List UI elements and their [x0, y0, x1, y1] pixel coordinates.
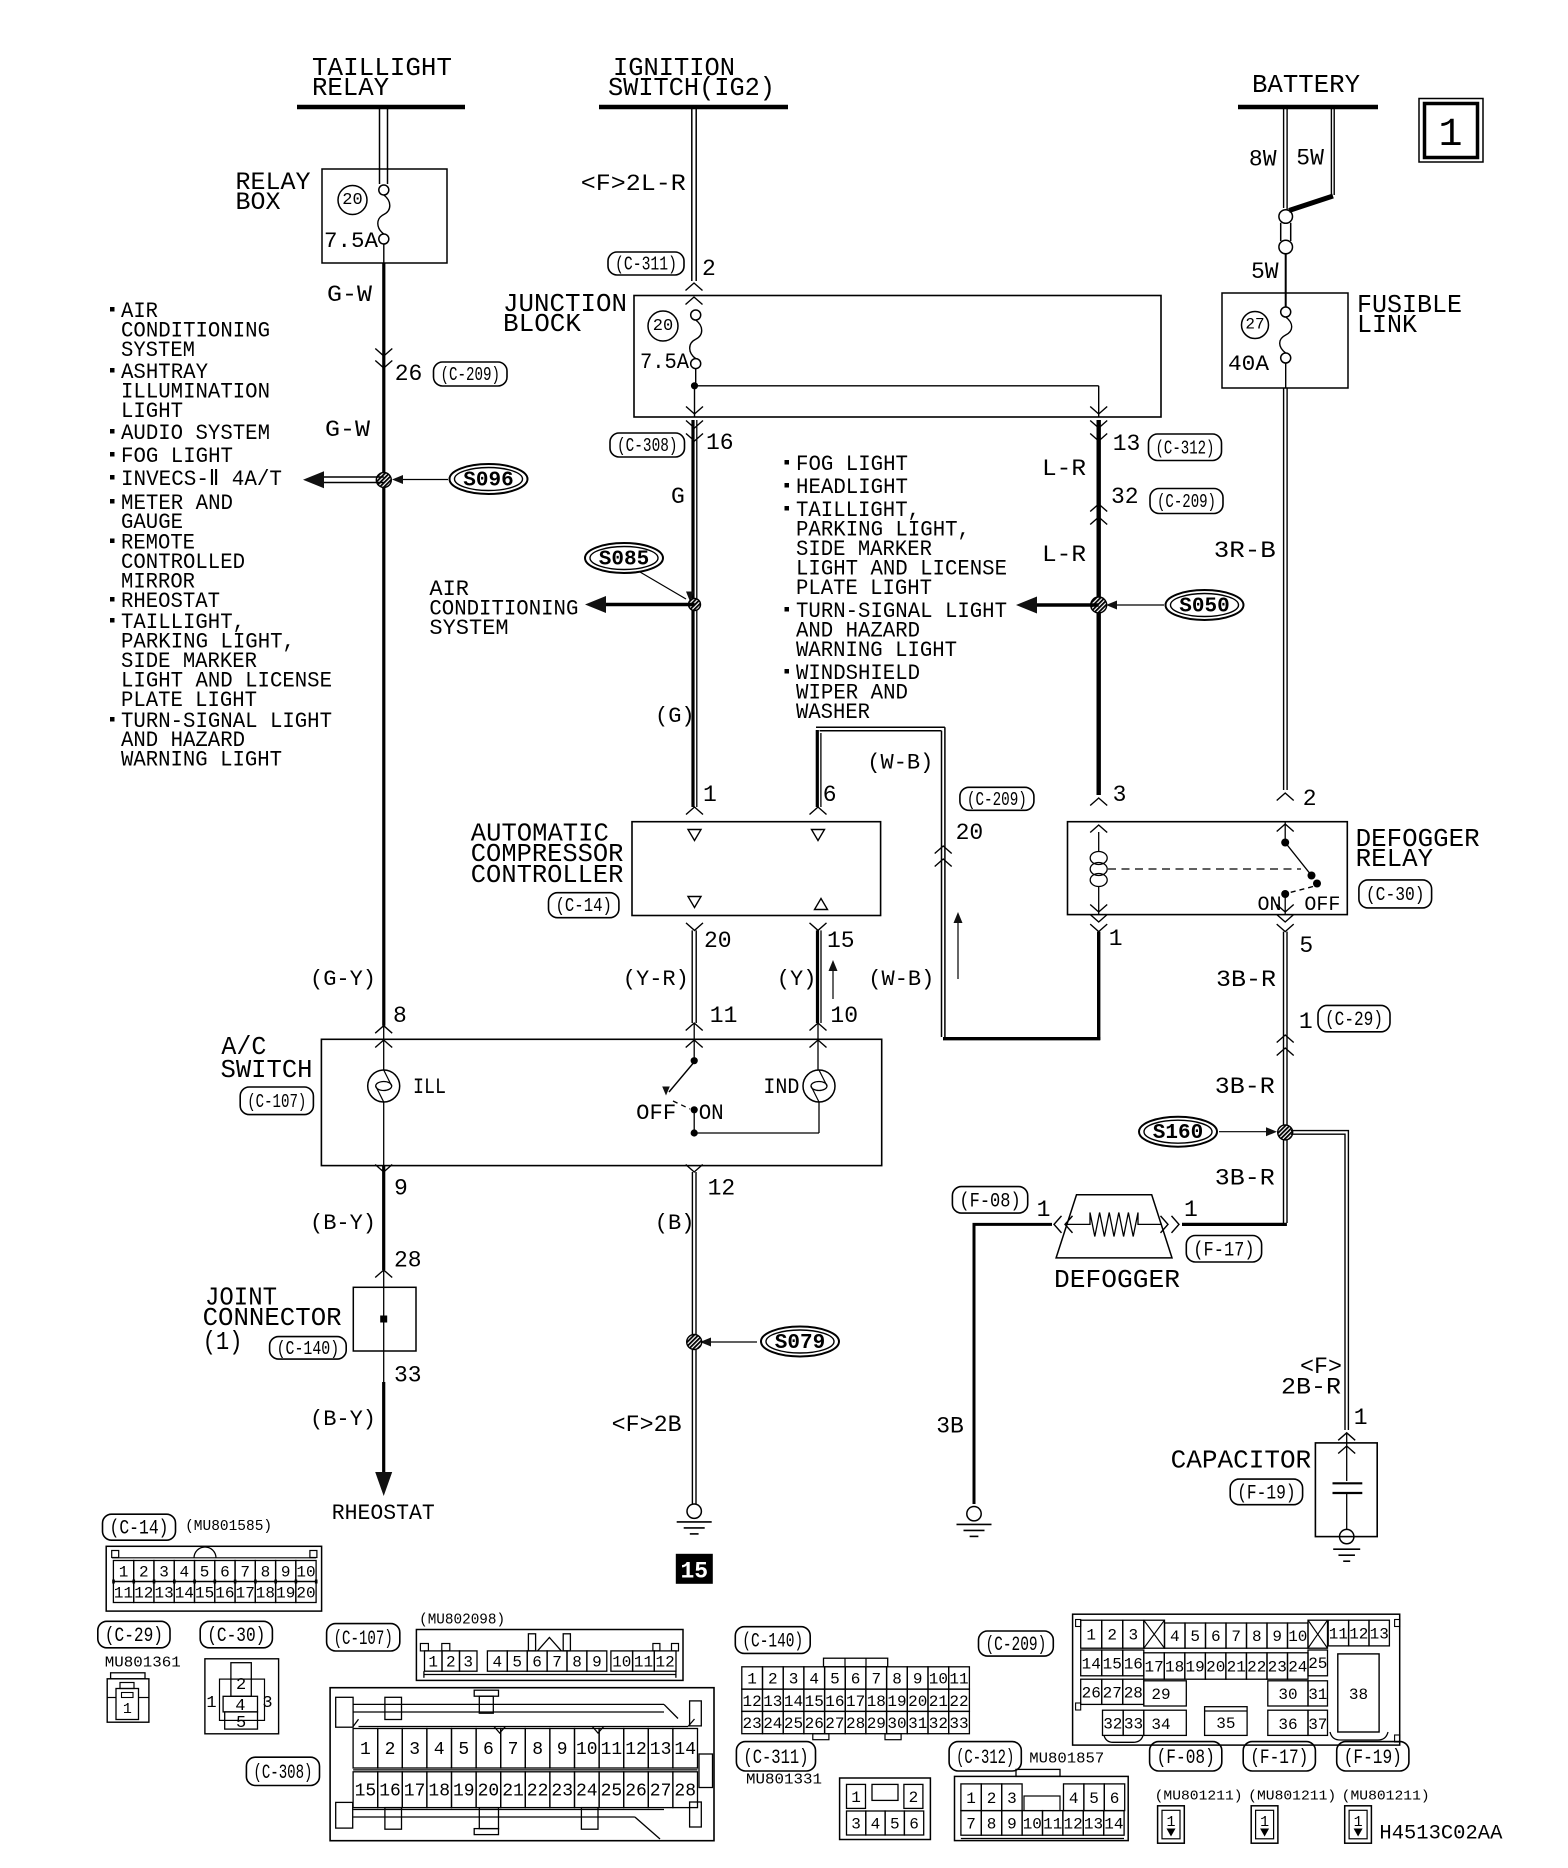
label <F>2B — [612, 1412, 682, 1438]
wire defogger left to ground 3B (thick) — [936, 1224, 1052, 1504]
label AIR CONDITIONING SYSTEM — [429, 577, 578, 641]
svg-text:14: 14 — [674, 1740, 696, 1760]
svg-text:2B-R: 2B-R — [1281, 1375, 1341, 1401]
svg-text:3: 3 — [159, 1564, 169, 1582]
svg-text:3: 3 — [1113, 782, 1127, 808]
svg-text:(B): (B) — [655, 1211, 695, 1236]
fuse 20 7.5A in relay box — [324, 185, 390, 254]
relay switch contacts — [1258, 822, 1341, 917]
svg-text:3R-B: 3R-B — [1214, 538, 1276, 564]
svg-text:9: 9 — [592, 1654, 602, 1672]
svg-text:2: 2 — [236, 1676, 246, 1695]
svg-text:15: 15 — [680, 1559, 708, 1585]
svg-text:22: 22 — [949, 1693, 968, 1711]
wire: taillight relay feed (double) — [380, 109, 388, 184]
svg-text:26: 26 — [625, 1782, 647, 1802]
svg-text:3: 3 — [1128, 1627, 1138, 1645]
svg-text:(F-19): (F-19) — [1344, 1747, 1402, 1770]
svg-text:1: 1 — [1438, 113, 1462, 158]
junction node in block — [691, 369, 698, 390]
wire to air conditioning system (thick arrow) — [585, 596, 695, 613]
svg-text:(C-209): (C-209) — [441, 364, 501, 386]
svg-text:(C-308): (C-308) — [617, 435, 678, 457]
junction node at S085 — [689, 599, 701, 611]
svg-text:(F-08): (F-08) — [1157, 1747, 1215, 1770]
svg-text:1: 1 — [703, 782, 717, 808]
svg-text:33: 33 — [1124, 1715, 1143, 1733]
svg-text:OFF: OFF — [1304, 894, 1340, 917]
svg-text:3: 3 — [789, 1671, 799, 1689]
svg-text:3: 3 — [262, 1694, 272, 1713]
svg-text:6: 6 — [823, 782, 837, 808]
junction node at S096 — [376, 473, 391, 488]
svg-text:17: 17 — [846, 1693, 865, 1711]
relay dashed link — [1108, 868, 1301, 870]
splice S160 — [1139, 1117, 1277, 1147]
svg-text:<F>2B: <F>2B — [612, 1412, 682, 1438]
svg-text:S085: S085 — [599, 549, 649, 572]
load list (ignition circuits) — [785, 452, 1008, 725]
svg-text:(C-209): (C-209) — [986, 1634, 1047, 1657]
svg-text:3: 3 — [463, 1654, 473, 1672]
flow arrow up (Y) — [829, 960, 838, 999]
svg-text:4: 4 — [492, 1654, 502, 1672]
svg-text:WASHER: WASHER — [796, 700, 870, 725]
svg-text:4: 4 — [1069, 1790, 1079, 1808]
svg-text:9: 9 — [557, 1740, 568, 1760]
svg-text:5W: 5W — [1251, 259, 1279, 285]
svg-text:1: 1 — [119, 1564, 129, 1582]
svg-text:(C-30): (C-30) — [207, 1625, 265, 1648]
svg-text:LINK: LINK — [1357, 310, 1417, 340]
pin 3 defogger relay — [1090, 782, 1126, 833]
svg-text:L-R: L-R — [1042, 542, 1086, 568]
svg-text:30: 30 — [887, 1715, 906, 1733]
svg-text:12: 12 — [742, 1693, 761, 1711]
wire W-B down run (double) — [942, 727, 945, 1038]
label (Y) — [777, 967, 817, 992]
svg-text:13: 13 — [650, 1740, 672, 1760]
svg-text:1: 1 — [1037, 1197, 1051, 1223]
wire W-B top run (double) — [816, 727, 945, 730]
svg-text:8: 8 — [892, 1671, 902, 1689]
pin 9 A/C switch — [375, 1165, 408, 1202]
connector crossing 1 C-29 — [1277, 1005, 1390, 1055]
svg-text:1: 1 — [747, 1671, 757, 1689]
svg-text:AUDIO SYSTEM: AUDIO SYSTEM — [121, 421, 270, 446]
svg-text:(Y): (Y) — [777, 967, 817, 992]
connector pinout C-312 — [949, 1742, 1128, 1841]
svg-text:(MU802098): (MU802098) — [419, 1612, 505, 1629]
wire to INVECS (double with arrow) — [303, 471, 384, 488]
svg-text:2: 2 — [987, 1790, 997, 1808]
svg-text:(F-08): (F-08) — [959, 1190, 1020, 1213]
ground (ignition branch) — [677, 1504, 712, 1534]
svg-text:5: 5 — [200, 1564, 210, 1582]
svg-text:21: 21 — [929, 1693, 948, 1711]
svg-text:S079: S079 — [775, 1332, 825, 1355]
wire defogger to relay (thick) — [1182, 1223, 1287, 1226]
svg-text:5: 5 — [1190, 1628, 1200, 1646]
relay coil — [1090, 832, 1107, 915]
pin 1 defogger relay — [1090, 905, 1122, 953]
svg-text:20: 20 — [1206, 1659, 1225, 1677]
svg-text:(C-209): (C-209) — [1157, 491, 1216, 513]
wire to rheostat with arrow — [375, 1351, 392, 1496]
svg-text:(C-311): (C-311) — [743, 1747, 808, 1770]
svg-text:HEADLIGHT: HEADLIGHT — [796, 475, 908, 500]
svg-text:1: 1 — [1086, 1627, 1096, 1645]
svg-text:4: 4 — [871, 1816, 881, 1834]
svg-text:ILL: ILL — [413, 1075, 446, 1100]
svg-text:FOG LIGHT: FOG LIGHT — [796, 452, 908, 477]
svg-text:(1): (1) — [203, 1327, 243, 1357]
svg-text:19: 19 — [276, 1585, 295, 1603]
svg-text:31: 31 — [908, 1715, 927, 1733]
svg-text:OFF: OFF — [636, 1101, 676, 1126]
svg-text:15: 15 — [805, 1693, 824, 1711]
svg-text:(MU801585): (MU801585) — [185, 1518, 272, 1535]
svg-text:32: 32 — [929, 1715, 948, 1733]
svg-text:14: 14 — [784, 1693, 803, 1711]
connector crossing 26 C-209 — [375, 349, 507, 388]
wire G (thick with companion) — [671, 420, 697, 807]
pin 20 compressor controller — [686, 897, 732, 955]
svg-text:(C-308): (C-308) — [253, 1762, 312, 1785]
label G-W (2) — [325, 417, 370, 443]
svg-text:38: 38 — [1349, 1686, 1368, 1704]
svg-text:10: 10 — [1023, 1815, 1042, 1833]
svg-text:MU801857: MU801857 — [1029, 1750, 1104, 1767]
svg-text:9: 9 — [394, 1176, 408, 1202]
svg-text:17: 17 — [1144, 1659, 1163, 1677]
svg-text:6: 6 — [1211, 1628, 1221, 1646]
svg-text:27: 27 — [650, 1782, 672, 1802]
svg-text:10: 10 — [612, 1654, 631, 1672]
op: automatic compressor controller C-14 — [471, 819, 881, 918]
svg-text:1: 1 — [966, 1790, 976, 1808]
svg-text:5: 5 — [236, 1714, 246, 1733]
connector pinout C-209 — [979, 1614, 1400, 1745]
capacitor F-19 — [1171, 1405, 1378, 1544]
svg-text:3B-R: 3B-R — [1216, 967, 1276, 993]
svg-text:6: 6 — [532, 1654, 542, 1672]
svg-text:1: 1 — [206, 1694, 216, 1713]
svg-text:20: 20 — [704, 928, 732, 954]
svg-text:10: 10 — [1288, 1628, 1307, 1646]
svg-text:(MU801211): (MU801211) — [1155, 1789, 1243, 1805]
svg-text:RELAY: RELAY — [312, 73, 389, 103]
svg-text:5: 5 — [458, 1740, 469, 1760]
svg-text:ON: ON — [699, 1101, 724, 1126]
svg-text:32: 32 — [1103, 1715, 1122, 1733]
svg-text:11: 11 — [1329, 1626, 1348, 1644]
label <F> 2B-R — [1281, 1354, 1342, 1401]
wire 5W from battery (double) — [1296, 109, 1334, 197]
fuse 20 7.5A in junction block — [640, 310, 702, 375]
svg-text:DEFOGGER: DEFOGGER — [1054, 1265, 1180, 1295]
svg-text:25: 25 — [784, 1715, 803, 1733]
svg-text:27: 27 — [825, 1715, 844, 1733]
svg-text:3: 3 — [1007, 1790, 1017, 1808]
svg-text:7: 7 — [508, 1740, 519, 1760]
label (W-B) bottom — [868, 967, 934, 992]
svg-text:H4513C02AA: H4513C02AA — [1379, 1823, 1502, 1846]
svg-text:(C-312): (C-312) — [1156, 437, 1215, 459]
connector crossing 16 C-308 — [610, 421, 734, 458]
connector pinout C-107 — [327, 1612, 683, 1681]
svg-text:22: 22 — [1247, 1659, 1266, 1677]
svg-text:23: 23 — [1268, 1659, 1287, 1677]
connector crossing 20 C-209 on W-B — [935, 787, 1034, 866]
defogger relay box C-30 — [1068, 822, 1480, 915]
svg-text:20: 20 — [342, 191, 362, 210]
svg-text:9: 9 — [1007, 1815, 1017, 1833]
svg-text:7: 7 — [1231, 1628, 1241, 1646]
wire pin20 to pin11 (double) — [692, 930, 696, 1023]
connector pinout C-29 — [98, 1621, 181, 1722]
svg-text:G: G — [671, 484, 685, 510]
svg-text:29: 29 — [867, 1715, 886, 1733]
wire <F>2L-R ignition feed (double) — [581, 109, 696, 281]
svg-text:28: 28 — [1124, 1684, 1143, 1702]
svg-text:4: 4 — [1170, 1628, 1180, 1646]
svg-text:MU801361: MU801361 — [105, 1655, 181, 1672]
svg-text:7.5A: 7.5A — [324, 229, 379, 254]
flow arrow up (W-B) — [954, 912, 963, 979]
label (B) — [655, 1211, 695, 1236]
A/C switch box C-107 — [221, 1032, 882, 1166]
svg-text:1: 1 — [1109, 926, 1123, 952]
svg-text:13: 13 — [1370, 1626, 1389, 1644]
defogger heater element — [1056, 1195, 1172, 1258]
svg-text:23: 23 — [551, 1782, 573, 1802]
joint connector node — [380, 1287, 387, 1351]
splice S096 — [392, 464, 528, 494]
ground (capacitor) — [1333, 1549, 1360, 1561]
svg-text:(G): (G) — [655, 704, 695, 729]
svg-text:7: 7 — [240, 1564, 250, 1582]
svg-text:20: 20 — [653, 317, 673, 336]
wire L-R (thick) — [1042, 420, 1099, 795]
svg-text:7: 7 — [871, 1671, 881, 1689]
node BATTERY (source bus) — [1238, 70, 1378, 107]
svg-text:3: 3 — [851, 1816, 861, 1834]
svg-text:11: 11 — [634, 1654, 653, 1672]
svg-text:1: 1 — [428, 1654, 438, 1672]
svg-text:(W-B): (W-B) — [867, 751, 933, 776]
splice S050 — [1106, 590, 1244, 620]
svg-text:10: 10 — [830, 1003, 858, 1029]
svg-text:5: 5 — [890, 1816, 900, 1834]
svg-text:INVECS-Ⅱ 4A/T: INVECS-Ⅱ 4A/T — [121, 467, 282, 492]
svg-text:RELAY: RELAY — [1356, 844, 1434, 874]
node IGNITION SWITCH(IG2) (source bus) — [599, 53, 788, 107]
label (Y-R) — [623, 967, 689, 992]
svg-text:5: 5 — [1299, 933, 1313, 959]
pin 33 label — [394, 1362, 422, 1388]
pin 10 A/C switch — [810, 1003, 859, 1070]
svg-text:30: 30 — [1278, 1686, 1297, 1704]
svg-text:9: 9 — [913, 1671, 923, 1689]
svg-text:(F-19): (F-19) — [1237, 1482, 1295, 1505]
svg-text:(F-17): (F-17) — [1193, 1239, 1254, 1262]
label 3B-R (3) — [1215, 1165, 1275, 1191]
svg-text:<F>2L-R: <F>2L-R — [581, 171, 686, 197]
svg-text:13: 13 — [154, 1585, 173, 1603]
svg-text:25: 25 — [1308, 1655, 1327, 1673]
svg-text:11: 11 — [114, 1585, 133, 1603]
svg-text:11: 11 — [949, 1671, 968, 1689]
svg-text:12: 12 — [1349, 1626, 1368, 1644]
wire G-W taillight main (thick) — [383, 244, 385, 1026]
svg-text:SWITCH(IG2): SWITCH(IG2) — [608, 73, 775, 103]
svg-text:CONTROLLER: CONTROLLER — [471, 860, 624, 890]
svg-text:24: 24 — [576, 1782, 598, 1802]
svg-text:26: 26 — [395, 361, 423, 387]
svg-text:1: 1 — [1260, 1814, 1269, 1831]
svg-text:2: 2 — [909, 1789, 919, 1807]
connector crossing 32 C-209 — [1090, 484, 1223, 525]
svg-text:WARNING LIGHT: WARNING LIGHT — [121, 748, 282, 773]
pin 1 compressor controller — [686, 782, 717, 841]
svg-text:6: 6 — [483, 1740, 494, 1760]
svg-text:1: 1 — [851, 1789, 861, 1807]
svg-text:7.5A: 7.5A — [640, 350, 690, 375]
svg-text:8: 8 — [261, 1564, 271, 1582]
connector pinout C-308 — [246, 1688, 714, 1841]
svg-text:PLATE LIGHT: PLATE LIGHT — [796, 576, 932, 601]
wire 8W from battery (double) — [1249, 109, 1287, 210]
svg-text:8: 8 — [572, 1654, 582, 1672]
svg-text:(C-209): (C-209) — [967, 789, 1027, 811]
wire pin15 to pin10 (thick) — [818, 930, 822, 1023]
wire B to ground (double) — [692, 1172, 696, 1504]
svg-text:29: 29 — [1151, 1686, 1170, 1704]
connector F-17 — [1161, 1197, 1262, 1262]
svg-text:(C-140): (C-140) — [277, 1338, 340, 1360]
pin 11 A/C switch — [686, 1003, 738, 1061]
wire pin6 riser (thick) — [817, 730, 821, 807]
svg-text:2: 2 — [768, 1671, 778, 1689]
svg-text:24: 24 — [1288, 1659, 1307, 1677]
svg-text:21: 21 — [1227, 1659, 1246, 1677]
svg-text:16: 16 — [215, 1585, 234, 1603]
wire block exit left — [686, 386, 703, 417]
svg-text:G-W: G-W — [327, 282, 372, 308]
svg-text:S160: S160 — [1153, 1122, 1203, 1145]
svg-text:34: 34 — [1151, 1716, 1170, 1734]
svg-text:17: 17 — [404, 1782, 426, 1802]
svg-text:RHEOSTAT: RHEOSTAT — [332, 1501, 435, 1526]
pin 5 defogger relay — [1277, 905, 1314, 960]
ground (defogger) — [957, 1507, 992, 1537]
junction node at S079 — [687, 1335, 702, 1350]
svg-text:(B-Y): (B-Y) — [310, 1407, 376, 1432]
svg-text:1: 1 — [1184, 1197, 1198, 1223]
connector pinout C-14 — [103, 1514, 322, 1611]
svg-text:3B-R: 3B-R — [1215, 1074, 1275, 1100]
wire 3R-B (double) — [1214, 388, 1287, 790]
connector pinout C-140 — [735, 1627, 969, 1740]
svg-text:3B: 3B — [936, 1413, 964, 1439]
svg-text:(MU801211): (MU801211) — [1342, 1789, 1430, 1805]
svg-text:5: 5 — [512, 1654, 522, 1672]
label RHEOSTAT — [332, 1501, 435, 1526]
label (G) — [655, 704, 695, 729]
splice S085 — [585, 543, 694, 602]
svg-text:MU801331: MU801331 — [746, 1772, 822, 1789]
svg-text:37: 37 — [1308, 1716, 1327, 1734]
svg-text:(G-Y): (G-Y) — [310, 967, 376, 992]
svg-text:5: 5 — [1089, 1790, 1099, 1808]
svg-text:6: 6 — [851, 1671, 861, 1689]
connector pinout C-30 — [200, 1621, 278, 1734]
svg-text:(C-30): (C-30) — [1366, 884, 1425, 906]
svg-text:19: 19 — [1185, 1659, 1204, 1677]
svg-text:31: 31 — [1308, 1686, 1327, 1704]
svg-text:15: 15 — [195, 1585, 214, 1603]
svg-text:11: 11 — [710, 1003, 738, 1029]
node TAILLIGHT RELAY (source bus) — [297, 53, 465, 107]
svg-text:20: 20 — [956, 820, 984, 846]
pin 2 defogger relay — [1277, 786, 1317, 832]
pin 15 compressor controller — [810, 899, 855, 955]
svg-text:28: 28 — [394, 1248, 422, 1274]
svg-text:16: 16 — [706, 430, 734, 456]
svg-text:BLOCK: BLOCK — [503, 309, 581, 339]
svg-text:4: 4 — [179, 1564, 189, 1582]
wire to turn-signal (thick arrow left) — [1016, 597, 1099, 614]
svg-text:3: 3 — [409, 1740, 420, 1760]
label 5W — [1251, 254, 1286, 307]
svg-text:2: 2 — [385, 1740, 396, 1760]
svg-text:22: 22 — [527, 1782, 549, 1802]
svg-text:35: 35 — [1216, 1715, 1235, 1733]
svg-text:(C-14): (C-14) — [110, 1518, 169, 1541]
load list (taillight relay circuits) — [110, 299, 332, 773]
svg-text:CAPACITOR: CAPACITOR — [1171, 1445, 1312, 1475]
svg-text:16: 16 — [1124, 1655, 1143, 1673]
connector crossing 13 C-312 — [1090, 421, 1221, 461]
svg-text:3B-R: 3B-R — [1215, 1165, 1275, 1191]
svg-text:6: 6 — [909, 1816, 919, 1834]
splice S079 — [700, 1327, 839, 1357]
svg-text:(C-107): (C-107) — [334, 1628, 393, 1651]
svg-text:(Y-R): (Y-R) — [623, 967, 689, 992]
wire inside block to right branch — [695, 386, 1108, 417]
svg-text:10: 10 — [296, 1564, 315, 1582]
svg-text:(C-29): (C-29) — [105, 1625, 163, 1648]
pin 8 A/C switch — [375, 1003, 407, 1070]
svg-text:1: 1 — [1299, 1009, 1313, 1035]
svg-text:9: 9 — [281, 1564, 291, 1582]
svg-text:8W: 8W — [1249, 147, 1277, 173]
svg-text:(C-107): (C-107) — [247, 1091, 306, 1113]
svg-text:(F-17): (F-17) — [1250, 1747, 1308, 1770]
fusible link box — [1222, 290, 1462, 388]
svg-text:10: 10 — [576, 1740, 598, 1760]
svg-text:1: 1 — [123, 1701, 132, 1718]
label (B-Y) — [310, 1211, 376, 1236]
svg-text:40A: 40A — [1228, 352, 1270, 377]
svg-text:5: 5 — [830, 1671, 840, 1689]
svg-text:18: 18 — [256, 1585, 275, 1603]
connector crossing 28 — [375, 1248, 421, 1288]
joint connector (1) C-140 — [203, 1282, 416, 1360]
svg-text:20: 20 — [908, 1693, 927, 1711]
svg-text:2: 2 — [1107, 1627, 1117, 1645]
